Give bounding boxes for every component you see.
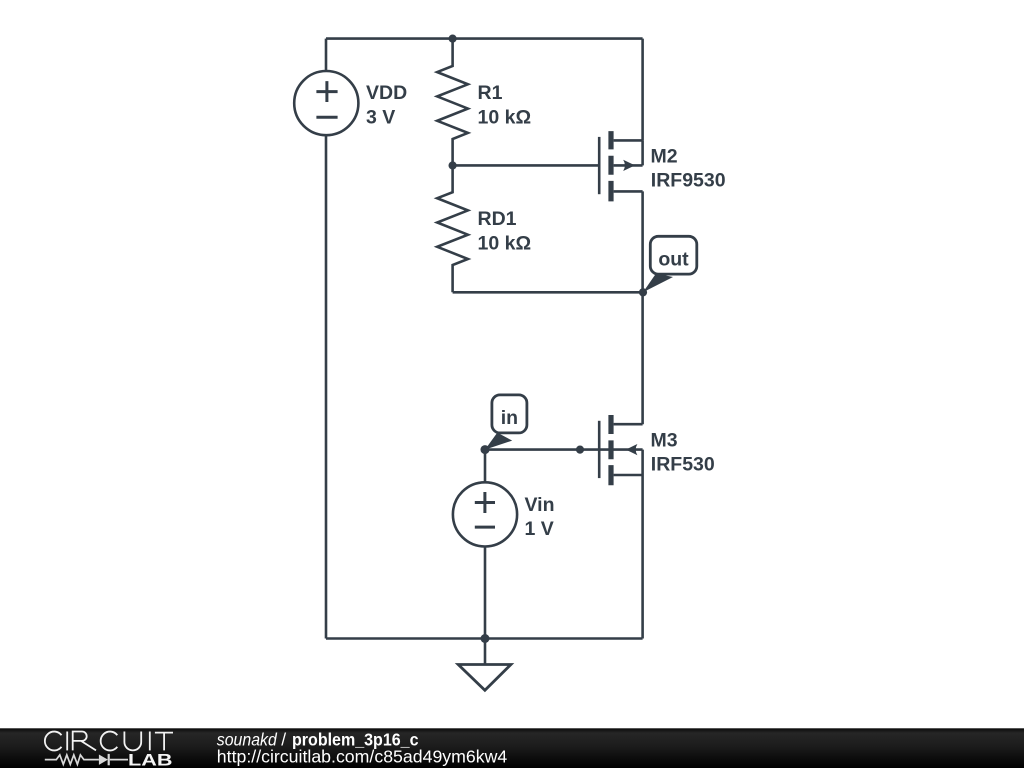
svg-text:R1: R1	[478, 82, 503, 104]
wire M2 gate	[453, 164, 600, 167]
voltage source VDD	[294, 71, 358, 135]
svg-text:M2: M2	[651, 145, 678, 167]
svg-text:10 kΩ: 10 kΩ	[478, 232, 532, 254]
label VDD value	[366, 82, 407, 128]
junction R1/RD1/M2 gate	[449, 161, 457, 169]
junction top (R1/top rail)	[449, 35, 457, 43]
node out bubble	[643, 236, 697, 292]
wire bottom rail	[326, 637, 643, 640]
wire top rail	[326, 37, 643, 40]
wire right rail bottom (M3 source to bottom rail)	[641, 475, 644, 639]
svg-text:out: out	[658, 249, 689, 271]
svg-text:http://circuitlab.com/c85ad49y: http://circuitlab.com/c85ad49ym6kw4	[217, 747, 508, 767]
wire ground stub	[484, 639, 487, 665]
svg-text:3 V: 3 V	[366, 106, 395, 128]
wire right rail top (top rail to M2 drain)	[641, 39, 644, 141]
label R1 value	[478, 82, 532, 128]
voltage source Vin	[453, 482, 517, 546]
junction in node	[481, 445, 490, 454]
logo CIRCUIT wordmark	[45, 732, 173, 751]
wire Vin bottom lead	[484, 547, 487, 639]
svg-text:M3: M3	[651, 430, 678, 452]
label M3 value	[651, 430, 715, 476]
wire left rail upper (VDD to top rail)	[325, 39, 328, 71]
svg-text:1 V: 1 V	[525, 518, 554, 540]
resistor R1	[437, 39, 468, 166]
junction out node	[639, 288, 647, 296]
svg-text:IRF530: IRF530	[651, 454, 715, 476]
wire RD1 bottom to out node	[453, 291, 643, 294]
resistor RD1	[437, 166, 468, 293]
wire Vin top lead	[484, 450, 487, 483]
logo resistor-diode glyph	[45, 754, 128, 765]
wire in node to M3 (gate/body line)	[485, 448, 643, 451]
label M2 value	[651, 145, 726, 191]
svg-text:in: in	[501, 407, 518, 429]
label Vin value	[525, 494, 555, 540]
node in bubble	[485, 395, 527, 450]
wire right rail middle (M2 source through out node to M3 drain)	[641, 191, 644, 424]
svg-text:RD1: RD1	[478, 208, 517, 230]
transistor M2	[599, 131, 642, 201]
svg-text:VDD: VDD	[366, 82, 407, 104]
junction ground	[481, 634, 490, 643]
ground	[458, 665, 511, 691]
label RD1 value	[478, 208, 532, 255]
footer attribution line	[217, 730, 419, 750]
junction gate wire	[576, 446, 584, 454]
transistor M3	[599, 415, 642, 485]
svg-text:LAB: LAB	[128, 751, 173, 768]
svg-text:IRF9530: IRF9530	[651, 169, 726, 191]
svg-text:10 kΩ: 10 kΩ	[478, 106, 532, 128]
svg-text:Vin: Vin	[525, 494, 555, 516]
wire left rail lower (VDD to bottom rail)	[325, 135, 328, 638]
